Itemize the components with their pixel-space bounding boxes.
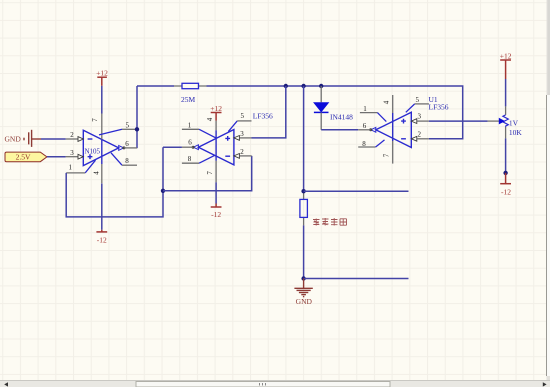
svg-text:-12: -12 bbox=[211, 210, 221, 219]
pin 3 bbox=[411, 119, 417, 124]
wire (battery to op1 pin 2) bbox=[41, 138, 66, 140]
wire (lower stub to the right) bbox=[304, 278, 409, 280]
svg-text:LF356: LF356 bbox=[429, 103, 449, 112]
port 2.5V bbox=[5, 152, 47, 162]
wire (2.5V port to op1 pin 3) bbox=[47, 156, 66, 158]
pin 5 bbox=[406, 104, 415, 112]
svg-text:8: 8 bbox=[188, 155, 192, 163]
pin 4 bbox=[101, 164, 103, 183]
wire (feedback to op2 pin 2) bbox=[163, 156, 252, 191]
power port +12 (op2 supply) bbox=[210, 104, 222, 121]
wire (diode to U1 output) bbox=[321, 129, 358, 131]
svg-text:+12: +12 bbox=[500, 51, 512, 60]
wire (op2 output to feedback riser) bbox=[163, 146, 182, 148]
node (junction on feedback wire) bbox=[161, 189, 165, 193]
power port +12 (op-amp N105 supply) bbox=[96, 68, 108, 86]
svg-text:+12: +12 bbox=[210, 104, 222, 113]
svg-text:8: 8 bbox=[125, 157, 129, 165]
svg-text:+12: +12 bbox=[96, 68, 108, 77]
node (junction at pot bottom) bbox=[503, 171, 507, 175]
wire (drop to op2 pin 3) bbox=[252, 86, 286, 138]
svg-text:1: 1 bbox=[188, 122, 192, 130]
wire (top net, right of resistor) bbox=[207, 86, 463, 139]
wire (pot bottom) bbox=[505, 138, 507, 173]
pin 3 bbox=[234, 136, 240, 141]
svg-text:N105: N105 bbox=[85, 148, 101, 156]
svg-text:7: 7 bbox=[206, 171, 214, 175]
diode IN4148 bbox=[314, 86, 353, 130]
svg-text:6: 6 bbox=[188, 139, 192, 147]
pin 8 bbox=[111, 153, 122, 165]
svg-text:1V: 1V bbox=[509, 119, 519, 128]
svg-text:GND: GND bbox=[5, 135, 22, 144]
pin 6 bbox=[371, 127, 376, 132]
pin 4 bbox=[392, 95, 394, 113]
svg-text:-12: -12 bbox=[501, 187, 511, 196]
pin 6 bbox=[193, 145, 198, 150]
svg-text:-12: -12 bbox=[97, 235, 107, 244]
svg-text:5: 5 bbox=[416, 96, 420, 104]
node (junction at ground) bbox=[301, 276, 305, 280]
power port -12 (op2 negative supply) bbox=[211, 182, 222, 219]
wire bbox=[101, 86, 103, 114]
pin 1 bbox=[85, 160, 95, 173]
pin 4 bbox=[215, 121, 217, 131]
svg-text:2: 2 bbox=[70, 131, 74, 139]
svg-text:10K: 10K bbox=[509, 128, 523, 137]
wire (upper stub to the right) bbox=[304, 190, 409, 192]
svg-text:4: 4 bbox=[206, 117, 214, 121]
svg-text:6: 6 bbox=[363, 122, 367, 130]
pin 6 bbox=[119, 146, 124, 151]
pin 1 bbox=[360, 112, 378, 114]
wire (op1 output riser to top net) bbox=[136, 86, 138, 148]
power port -12 (op1 negative supply) bbox=[96, 184, 107, 245]
svg-text:4: 4 bbox=[93, 171, 101, 175]
svg-text:2: 2 bbox=[418, 130, 422, 138]
pin 7 bbox=[215, 161, 217, 183]
potentiometer 10K 1V bbox=[488, 106, 523, 138]
pin 2 bbox=[66, 138, 78, 140]
svg-text:2.5V: 2.5V bbox=[16, 153, 31, 162]
svg-text:7: 7 bbox=[91, 118, 99, 122]
svg-text:7: 7 bbox=[383, 153, 391, 157]
pin 2 bbox=[411, 136, 417, 141]
svg-text:4: 4 bbox=[383, 100, 391, 104]
power port -12 (potentiometer bottom) bbox=[500, 173, 511, 196]
ground GND bbox=[294, 279, 312, 306]
pin 7 bbox=[392, 141, 394, 164]
pin 8 bbox=[182, 162, 199, 164]
pin 5 bbox=[228, 121, 237, 132]
node (junction on top net at x=286) bbox=[284, 84, 288, 88]
power port +12 (potentiometer top) bbox=[500, 51, 512, 79]
vertical scrollbar bbox=[547, 0, 550, 381]
resistor 25M bbox=[174, 83, 207, 104]
node (junction on top net at x=321) bbox=[319, 84, 323, 88]
svg-text:3: 3 bbox=[418, 113, 422, 121]
label sampling-resistor (CJK text) bbox=[313, 218, 347, 226]
pin 8 bbox=[358, 146, 375, 148]
wire (drop to sampling resistor) bbox=[303, 86, 305, 191]
svg-text:2: 2 bbox=[240, 148, 244, 156]
svg-text:3: 3 bbox=[70, 149, 74, 157]
pin 7 bbox=[101, 114, 103, 140]
pin 3 bbox=[66, 156, 78, 158]
pin 2 bbox=[234, 154, 240, 159]
svg-text:6: 6 bbox=[125, 140, 129, 148]
power port GND battery (input source) bbox=[5, 130, 42, 147]
node (junction at op1 pin5) bbox=[135, 127, 139, 131]
wire (resistor bottom to ground) bbox=[303, 225, 305, 278]
svg-text:5: 5 bbox=[241, 112, 245, 120]
svg-text:8: 8 bbox=[362, 140, 366, 148]
wire (U1 pin3 to potentiometer wiper) bbox=[429, 120, 488, 122]
svg-text:IN4148: IN4148 bbox=[330, 113, 353, 122]
svg-text:1: 1 bbox=[69, 164, 73, 172]
node (junction on top net at x=304) bbox=[301, 84, 305, 88]
svg-text:25M: 25M bbox=[181, 95, 196, 104]
node (junction above sampling resistor) bbox=[301, 189, 305, 193]
pin 5 bbox=[99, 129, 122, 135]
svg-text:5: 5 bbox=[126, 122, 130, 130]
resistor sampling (vertical) bbox=[300, 191, 308, 225]
svg-text:LF356: LF356 bbox=[253, 111, 273, 120]
wire (op1 pin1 feedback loop) bbox=[66, 147, 163, 217]
wire (top net, left of resistor) bbox=[137, 85, 174, 87]
op-amp LF356 (center, mirrored) bbox=[182, 111, 273, 182]
horizontal scrollbar bbox=[0, 381, 550, 387]
svg-text:3: 3 bbox=[240, 130, 244, 138]
op-amp N105 bbox=[66, 114, 137, 184]
svg-text:GND: GND bbox=[296, 297, 313, 306]
pin 1 bbox=[182, 128, 199, 130]
op-amp U1 LF356 (right, mirrored) bbox=[358, 95, 449, 164]
wire (pot top) bbox=[505, 79, 507, 106]
svg-text:1: 1 bbox=[363, 105, 367, 113]
